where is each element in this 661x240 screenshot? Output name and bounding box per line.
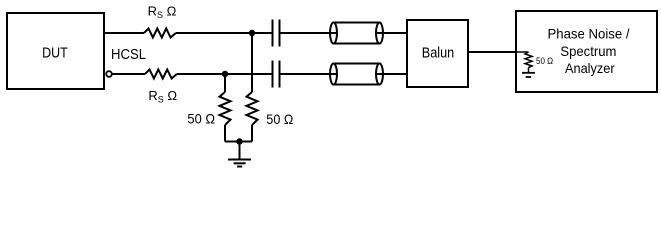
wire bbox=[281, 32, 334, 34]
capacitor C1 top bbox=[272, 20, 274, 47]
resistor RS top bbox=[144, 29, 176, 38]
capacitor C2 bottom bbox=[272, 61, 274, 88]
svg-text:Phase Noise /: Phase Noise / bbox=[548, 25, 630, 41]
DUT box bbox=[7, 13, 104, 89]
wire bbox=[383, 32, 407, 34]
wire bbox=[177, 73, 272, 75]
svg-text:RS Ω: RS Ω bbox=[148, 4, 177, 20]
svg-text:Analyzer: Analyzer bbox=[565, 60, 615, 76]
resistor 50 ohm left bbox=[220, 92, 231, 125]
node ground junction bbox=[236, 138, 242, 144]
svg-text:HCSL: HCSL bbox=[111, 47, 146, 63]
node bottom junction bbox=[222, 71, 228, 77]
ground analyzer internal bbox=[522, 73, 535, 77]
svg-text:50 Ω: 50 Ω bbox=[536, 56, 553, 66]
wire bbox=[383, 73, 407, 75]
wire analyzer input lead bbox=[516, 51, 529, 53]
wire vertical to resistor bbox=[251, 33, 253, 92]
svg-text:DUT: DUT bbox=[42, 46, 68, 62]
svg-text:Balun: Balun bbox=[422, 46, 455, 62]
resistor RS bottom bbox=[145, 70, 177, 79]
svg-text:Spectrum: Spectrum bbox=[560, 43, 616, 59]
resistor 50 ohm right bbox=[247, 92, 258, 125]
resistor 50 ohm internal termination bbox=[525, 52, 532, 72]
wire balun to analyzer bbox=[468, 51, 516, 53]
wire bottom output bbox=[112, 73, 145, 75]
coax transmission line top bbox=[330, 23, 383, 44]
Balun box bbox=[407, 20, 468, 87]
wire bbox=[281, 73, 334, 75]
wire vertical to resistor bbox=[224, 74, 226, 92]
coax transmission line bottom bbox=[330, 64, 383, 85]
wire bbox=[176, 32, 272, 34]
ground bbox=[228, 142, 251, 167]
wire top output bbox=[105, 32, 144, 34]
Phase Noise / Spectrum Analyzer box bbox=[516, 11, 657, 92]
svg-text:RS Ω: RS Ω bbox=[148, 88, 177, 104]
output bubble (open circle) bbox=[106, 71, 112, 77]
svg-text:50 Ω: 50 Ω bbox=[187, 111, 215, 127]
bottom joining wire bbox=[225, 141, 252, 143]
svg-text:50 Ω: 50 Ω bbox=[266, 111, 293, 127]
node top junction bbox=[249, 30, 255, 36]
